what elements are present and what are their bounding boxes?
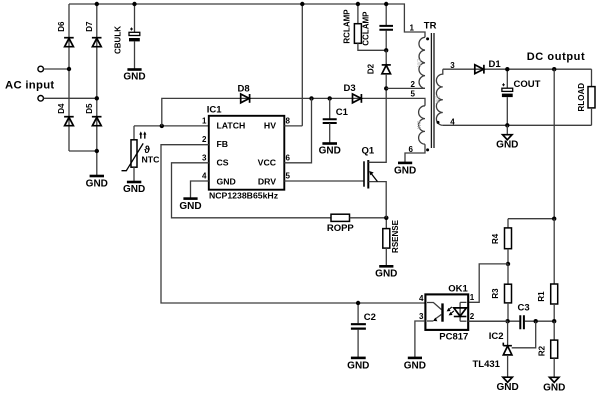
diode D1	[475, 59, 502, 74]
svg-text:D2: D2	[367, 63, 376, 74]
svg-text:6: 6	[409, 145, 414, 154]
svg-text:R2: R2	[537, 345, 546, 356]
svg-text:4: 4	[419, 294, 424, 303]
svg-text:D1: D1	[489, 59, 502, 70]
wire TR pin 2	[386, 87, 425, 89]
transformer TR aux winding W3	[417, 106, 425, 144]
svg-text:D3: D3	[344, 83, 356, 94]
node junction C1 top	[328, 96, 332, 100]
node junction D5-AC	[95, 96, 99, 100]
wire feedback junction row	[468, 320, 554, 322]
ground IC1	[179, 199, 201, 212]
wire D6/D4 vertical branch	[68, 4, 70, 151]
capacitor CCLAMP	[362, 4, 393, 50]
svg-text:NCP1238B65kHz: NCP1238B65kHz	[209, 190, 279, 200]
AC input terminal top	[38, 66, 44, 72]
node W1 polarity dot	[426, 37, 429, 40]
svg-text:4: 4	[202, 172, 207, 181]
svg-text:5: 5	[411, 90, 416, 99]
optocoupler OK1	[425, 284, 468, 343]
wire AC top	[44, 68, 70, 70]
svg-text:GND: GND	[543, 382, 565, 393]
svg-text:AC input: AC input	[5, 80, 54, 92]
svg-text:C3: C3	[518, 303, 530, 314]
svg-text:GND: GND	[86, 179, 108, 190]
diode D2	[367, 50, 391, 88]
svg-text:C2: C2	[364, 312, 376, 323]
svg-text:D6: D6	[57, 21, 66, 32]
svg-text:GND: GND	[217, 177, 236, 187]
diode D3	[344, 83, 362, 103]
resistor RLOAD	[577, 69, 595, 125]
wire D1 output row	[443, 68, 592, 70]
phototransistor inside OK1	[427, 303, 443, 322]
diode D5	[85, 103, 102, 126]
node junction R3 bottom	[505, 319, 509, 323]
svg-text:GND: GND	[375, 269, 397, 280]
svg-text:3: 3	[202, 153, 207, 162]
node W3 polarity dot	[426, 148, 429, 151]
node W2 polarity dot	[437, 121, 440, 124]
svg-text:GND: GND	[319, 145, 341, 156]
op-amp controller IC1	[207, 105, 285, 201]
svg-text:PC817: PC817	[439, 331, 468, 342]
wire R4 top row	[508, 218, 554, 220]
AC input terminal bottom	[38, 96, 44, 102]
node junction C2 top	[356, 301, 360, 305]
svg-text:C1: C1	[336, 107, 349, 118]
node junction R4 bottom	[506, 262, 510, 266]
svg-text:2: 2	[470, 312, 475, 321]
resistor R1	[537, 219, 558, 322]
node junction COUT bottom	[505, 123, 509, 127]
wire FB feedback row	[161, 145, 425, 303]
svg-text:RLOAD: RLOAD	[577, 83, 586, 112]
svg-text:D8: D8	[238, 84, 250, 95]
ground OK1	[404, 358, 426, 372]
wire D8/D3 row to TR pin 5	[162, 98, 425, 126]
wire CS to ROPP	[172, 163, 332, 218]
ground C2	[347, 358, 369, 372]
wire R4 bottom to OK1 pin 1	[468, 264, 508, 302]
node junction ROPP-source	[384, 216, 388, 220]
wire bridge bottom	[69, 150, 97, 152]
wire VCC branch	[284, 98, 311, 162]
wire IC1 GND pin to ground	[191, 181, 209, 199]
node junction output sense	[552, 67, 556, 71]
capacitor C1	[323, 98, 349, 143]
svg-text:NTC: NTC	[142, 155, 161, 165]
svg-text:VCC: VCC	[258, 157, 277, 167]
svg-text:1: 1	[470, 293, 475, 302]
node junction bridge bottom	[95, 149, 99, 153]
node junction C3 right	[534, 319, 538, 323]
node junction D2-pin2-drain	[384, 86, 388, 90]
svg-text:RCLAMP: RCLAMP	[342, 9, 351, 44]
wire D7/D5 vertical branch	[96, 4, 98, 176]
svg-text:R3: R3	[491, 288, 500, 299]
light arrows OK1	[447, 307, 454, 316]
capacitor CBULK	[113, 4, 140, 70]
svg-text:1: 1	[202, 117, 207, 126]
svg-text:GND: GND	[123, 72, 145, 83]
svg-text:RSENSE: RSENSE	[391, 219, 400, 253]
svg-text:5: 5	[286, 172, 291, 181]
svg-text:OK1: OK1	[448, 284, 468, 295]
node junction R1 bottom	[552, 319, 556, 323]
node junction D6-AC	[67, 67, 71, 71]
node junction D7 top	[95, 2, 99, 6]
transformer TR core	[431, 33, 434, 148]
wire LATCH row	[134, 125, 209, 127]
svg-text:HV: HV	[264, 120, 276, 130]
svg-text:W2: W2	[436, 95, 442, 103]
node junction COUT top	[505, 67, 509, 71]
svg-text:D7: D7	[85, 21, 94, 32]
node junction D8-VCC	[309, 96, 313, 100]
ground RSENSE	[375, 266, 397, 279]
resistor R3	[491, 264, 512, 321]
thermistor NTC	[122, 126, 161, 182]
resistor RCLAMP	[342, 4, 386, 50]
shunt regulator IC2 TL431	[473, 321, 512, 377]
wire HV branch	[284, 4, 302, 126]
transformer TR secondary winding W2	[436, 69, 443, 125]
ground output	[496, 125, 518, 150]
svg-text:TL431: TL431	[473, 359, 501, 370]
capacitor COUT	[502, 69, 541, 125]
svg-text:IC2: IC2	[489, 331, 504, 342]
ground R2	[543, 377, 565, 393]
transformer TR primary winding W1	[417, 37, 425, 88]
svg-text:D4: D4	[57, 103, 66, 114]
svg-text:1: 1	[410, 23, 415, 32]
wire OK1 pin 3 to ground	[415, 321, 426, 358]
svg-text:DC output: DC output	[527, 51, 586, 63]
node junction CBULK top	[132, 2, 136, 6]
svg-text:GND: GND	[347, 361, 369, 372]
capacitor C3	[518, 303, 530, 330]
svg-text:DRV: DRV	[258, 177, 276, 187]
svg-text:GND: GND	[404, 361, 426, 372]
node junction RCLAMP top	[356, 2, 360, 6]
LED inside OK1	[454, 302, 467, 321]
svg-text:GND: GND	[394, 165, 416, 176]
svg-text:3: 3	[419, 312, 424, 321]
node junction clamp bottom	[384, 48, 388, 52]
wire output bottom rail	[443, 124, 592, 126]
transistor Q1	[362, 88, 387, 217]
ground TR pin 6	[394, 163, 416, 176]
svg-text:W3: W3	[417, 121, 423, 129]
wire DRV to gate	[284, 180, 364, 182]
wire AC bottom	[44, 97, 97, 99]
node junction CCLAMP top	[384, 2, 388, 6]
svg-text:8: 8	[286, 117, 291, 126]
ground IC2	[496, 377, 518, 393]
ground NTC	[123, 182, 145, 195]
ground C1	[319, 144, 341, 157]
svg-text:COUT: COUT	[514, 79, 541, 90]
node junction LATCH-D8	[160, 124, 164, 128]
svg-text:CS: CS	[217, 157, 229, 167]
node junction HV rail	[300, 2, 304, 6]
ground bridge	[86, 176, 108, 190]
wire output sense to divider	[553, 69, 555, 219]
svg-text:D5: D5	[85, 103, 94, 114]
svg-text:CCLAMP: CCLAMP	[362, 11, 371, 46]
svg-text:R4: R4	[491, 233, 500, 244]
svg-text:GND: GND	[179, 201, 201, 212]
resistor R2	[537, 321, 557, 377]
svg-text:6: 6	[286, 153, 291, 162]
svg-text:W1: W1	[417, 58, 423, 66]
resistor RSENSE	[383, 218, 400, 266]
svg-text:R1: R1	[537, 291, 546, 302]
wire OK1 pin 2 row	[468, 320, 507, 322]
wire top rail to TR pin 1	[69, 4, 425, 37]
svg-text:GND: GND	[123, 184, 145, 195]
resistor R4	[491, 219, 512, 264]
svg-text:TR: TR	[424, 21, 437, 32]
diode D4	[57, 103, 74, 126]
svg-text:GND: GND	[496, 139, 518, 150]
svg-text:LATCH: LATCH	[217, 120, 246, 130]
svg-text:FB: FB	[217, 139, 229, 149]
svg-text:GND: GND	[496, 382, 518, 393]
svg-text:Q1: Q1	[362, 146, 375, 157]
wire TL431 ref link	[512, 321, 536, 348]
svg-text:ROPP: ROPP	[327, 223, 355, 234]
svg-text:2: 2	[202, 135, 207, 144]
svg-text:CBULK: CBULK	[113, 26, 122, 54]
svg-text:IC1: IC1	[207, 105, 223, 116]
diode D7	[85, 21, 102, 47]
capacitor C2	[351, 303, 376, 358]
node junction R4-R1 row	[552, 217, 556, 221]
resistor ROPP	[327, 214, 386, 234]
diode D6	[57, 21, 74, 47]
diode D8	[238, 84, 250, 103]
svg-text:2: 2	[411, 80, 416, 89]
ground CBULK	[123, 70, 145, 83]
wire TR pin 6 to ground	[405, 144, 425, 163]
